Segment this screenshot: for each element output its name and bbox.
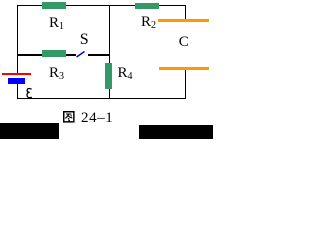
label R4	[118, 66, 133, 82]
label R3	[49, 66, 64, 82]
battery positive plate (red)	[2, 73, 30, 76]
label R2	[141, 15, 156, 31]
caption glyph tu (figure)	[63, 111, 75, 123]
resistor R1	[42, 2, 66, 8]
wire right lower (capacitor bottom plate to bottom wire)	[185, 69, 186, 99]
wire top (node between R1/R2 row)	[17, 5, 186, 6]
label epsilon (EMF)	[25, 86, 34, 100]
wire left lower (battery - to bottom)	[17, 84, 18, 99]
label S	[80, 32, 89, 48]
resistor R3	[42, 50, 66, 56]
wire middle right (switch contact to center vertical)	[88, 54, 109, 55]
black bar bottom right	[139, 125, 213, 139]
resistor R2	[135, 3, 159, 10]
wire middle stub (R3 to switch hinge)	[66, 54, 77, 55]
resistor R4	[105, 63, 111, 89]
battery negative plate (blue)	[8, 78, 26, 84]
wire right upper (top wire to capacitor top plate)	[185, 5, 186, 20]
caption text 24-1	[81, 111, 113, 126]
wire middle left (left rail to R3)	[17, 54, 42, 55]
capacitor C bottom plate	[159, 67, 209, 70]
switch S blade	[74, 49, 88, 59]
wire left upper (battery + to top)	[17, 5, 18, 73]
capacitor C top plate	[158, 19, 208, 22]
wire bottom	[17, 98, 186, 99]
black bar bottom left	[0, 123, 59, 139]
label C	[179, 35, 189, 50]
wire center vertical (through R4)	[109, 5, 110, 99]
label R1	[49, 16, 64, 32]
